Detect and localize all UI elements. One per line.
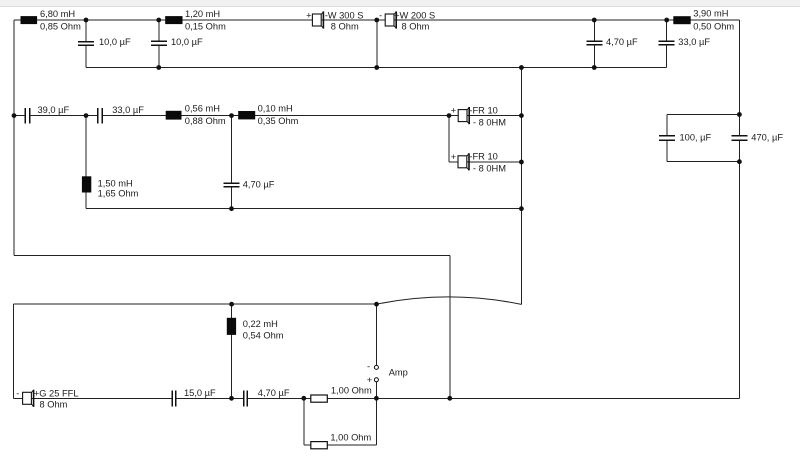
svg-text:-: - bbox=[367, 362, 370, 372]
svg-text:Amp: Amp bbox=[389, 367, 408, 377]
svg-text:-W 300 S: -W 300 S bbox=[325, 11, 364, 21]
svg-text:+: + bbox=[367, 375, 372, 385]
svg-text:4,70 µF: 4,70 µF bbox=[606, 37, 638, 47]
svg-text:+: + bbox=[306, 11, 311, 21]
svg-text:+: + bbox=[451, 152, 456, 162]
svg-text:- 8 0HM: - 8 0HM bbox=[473, 164, 506, 174]
svg-text:0,10 mH: 0,10 mH bbox=[258, 104, 293, 114]
svg-text:0,54 Ohm: 0,54 Ohm bbox=[243, 330, 284, 340]
svg-text:8 Ohm: 8 Ohm bbox=[402, 21, 430, 31]
svg-text:33,0 µF: 33,0 µF bbox=[112, 105, 144, 115]
svg-text:1,00 Ohm: 1,00 Ohm bbox=[331, 386, 372, 396]
svg-text:0,22 mH: 0,22 mH bbox=[243, 319, 278, 329]
svg-text:-: - bbox=[16, 389, 19, 399]
svg-text:15,0 µF: 15,0 µF bbox=[184, 388, 216, 398]
svg-text:-: - bbox=[379, 11, 382, 21]
svg-text:1,65 Ohm: 1,65 Ohm bbox=[98, 189, 139, 199]
svg-text:100, µF: 100, µF bbox=[680, 133, 712, 143]
svg-text:0,35 Ohm: 0,35 Ohm bbox=[258, 116, 299, 126]
svg-text:4,70 µF: 4,70 µF bbox=[258, 388, 290, 398]
svg-text:0,15 Ohm: 0,15 Ohm bbox=[185, 21, 226, 31]
svg-text:- 8 0HM: - 8 0HM bbox=[473, 117, 506, 127]
svg-text:1,00 Ohm: 1,00 Ohm bbox=[330, 433, 371, 443]
svg-text:+: + bbox=[451, 106, 456, 116]
svg-text:0,85 Ohm: 0,85 Ohm bbox=[40, 21, 81, 31]
svg-text:470, µF: 470, µF bbox=[751, 133, 783, 143]
svg-text:+W 200 S: +W 200 S bbox=[394, 11, 435, 21]
svg-text:10,0 µF: 10,0 µF bbox=[171, 37, 203, 47]
svg-text:0,56 mH: 0,56 mH bbox=[185, 104, 220, 114]
svg-text:3,90 mH: 3,90 mH bbox=[693, 9, 728, 19]
svg-text:39,0 µF: 39,0 µF bbox=[38, 105, 70, 115]
svg-text:10,0 µF: 10,0 µF bbox=[99, 37, 131, 47]
svg-text:6,80 mH: 6,80 mH bbox=[40, 9, 75, 19]
svg-text:8 Ohm: 8 Ohm bbox=[40, 400, 68, 410]
svg-text:33,0 µF: 33,0 µF bbox=[678, 37, 710, 47]
svg-text:0,50 Ohm: 0,50 Ohm bbox=[693, 21, 734, 31]
svg-text:+G 25 FFL: +G 25 FFL bbox=[34, 389, 79, 399]
svg-text:4,70 µF: 4,70 µF bbox=[243, 180, 275, 190]
svg-text:0,88 Ohm: 0,88 Ohm bbox=[185, 116, 226, 126]
svg-text:-FR 10: -FR 10 bbox=[469, 105, 497, 115]
svg-text:1,50 mH: 1,50 mH bbox=[98, 178, 133, 188]
svg-text:1,20 mH: 1,20 mH bbox=[185, 9, 220, 19]
svg-text:-FR 10: -FR 10 bbox=[469, 152, 497, 162]
svg-text:8 Ohm: 8 Ohm bbox=[331, 21, 359, 31]
